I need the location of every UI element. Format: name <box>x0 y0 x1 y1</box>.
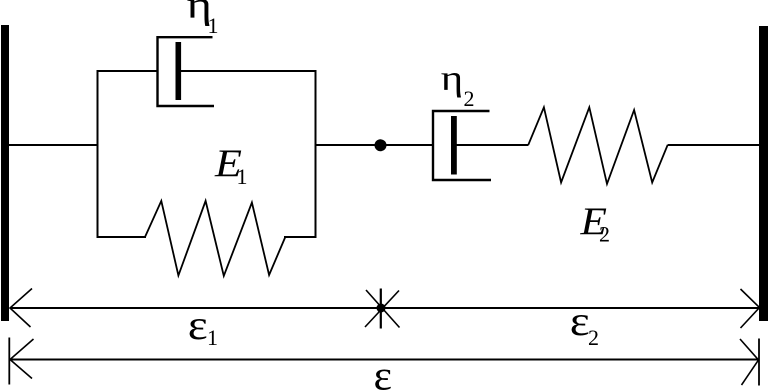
svg-text:1: 1 <box>208 13 219 38</box>
wall left <box>1 25 9 321</box>
arrowhead left of epsilon line <box>10 339 34 379</box>
Kelvin box left vertical <box>97 70 99 238</box>
dimension line epsilon1-epsilon2 <box>10 307 759 309</box>
damper eta2 rod <box>456 144 529 146</box>
Kelvin box top edge left segment <box>97 70 159 72</box>
spring E2 <box>528 107 667 184</box>
svg-text:2: 2 <box>464 86 475 111</box>
damper eta2 piston <box>451 116 457 175</box>
right tick of epsilon line <box>758 339 760 386</box>
Kelvin box bottom edge left segment <box>97 236 147 238</box>
Kelvin box bottom edge right segment <box>284 236 317 238</box>
svg-text:2: 2 <box>599 222 610 247</box>
spring E1 <box>145 201 285 276</box>
wire Kelvin box to damper eta2 <box>316 144 434 146</box>
middle junction dot <box>377 304 386 313</box>
svg-text:ε: ε <box>570 298 590 345</box>
middle arrowheads forming X <box>366 290 400 328</box>
damper eta1 cylinder <box>158 37 215 106</box>
svg-text:η: η <box>441 58 463 98</box>
svg-text:1: 1 <box>237 164 248 189</box>
wall right <box>759 26 768 321</box>
wire spring E2 to right wall <box>668 144 760 146</box>
arrowhead right of epsilon2 line <box>741 289 760 328</box>
left tick of epsilon line <box>8 338 10 385</box>
node dot <box>375 139 387 151</box>
middle divider tick <box>380 289 382 329</box>
dimension line epsilon (total) <box>10 359 759 361</box>
svg-text:1: 1 <box>207 325 218 350</box>
damper eta1 piston <box>176 42 182 100</box>
Kelvin box right vertical <box>315 70 317 238</box>
svg-text:ε: ε <box>188 302 208 349</box>
arrowhead left of epsilon1 line <box>10 289 32 328</box>
svg-text:2: 2 <box>588 325 599 350</box>
svg-text:ε: ε <box>374 354 393 390</box>
arrowhead right of epsilon line <box>740 339 759 385</box>
damper eta2 cylinder <box>433 111 491 180</box>
wire left wall to Kelvin box <box>9 144 99 146</box>
Kelvin box top edge right segment (damper rod) <box>181 70 317 72</box>
